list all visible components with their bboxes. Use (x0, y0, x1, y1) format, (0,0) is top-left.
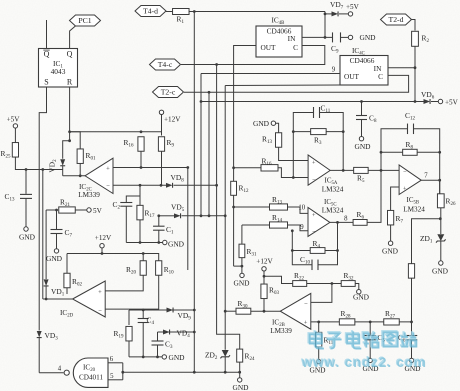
node C7 tap (55, 209, 58, 212)
terminal GND below C7 (46, 249, 63, 263)
wire to NAND pin4 (39, 372, 63, 374)
svg-text:+: + (304, 320, 308, 327)
node R03/out (263, 310, 266, 313)
svg-text:GND: GND (168, 353, 185, 362)
wire R5 right (368, 169, 399, 171)
resistor R01 (77, 149, 96, 164)
node IC5A out (342, 169, 345, 172)
svg-text:9: 9 (300, 224, 304, 231)
svg-text:C: C (378, 72, 383, 81)
node VD6 line/R2 (414, 100, 417, 103)
wire R31 bottom (241, 258, 243, 266)
node VD4 riser/outnet (193, 371, 196, 374)
connector flag T4-d (135, 6, 166, 17)
node rail jog (241, 265, 244, 268)
terminal GND below R32 (353, 290, 370, 302)
wire VD9 line (129, 309, 194, 311)
svg-text:+: + (98, 289, 102, 296)
terminal GND below R7 (382, 241, 399, 256)
wire C6 to GND (411, 340, 413, 358)
node C13 tap (25, 168, 28, 171)
wire R17 top riser (139, 196, 141, 206)
wire bus rail x194 (193, 12, 195, 373)
resistor R9 (158, 137, 174, 152)
node ZD1 top (439, 217, 442, 220)
wire GND line C2R17C1 (126, 242, 162, 244)
svg-text:6: 6 (110, 356, 114, 363)
node VD5/railC (208, 214, 211, 217)
wire +12V rail (70, 131, 162, 133)
svg-text:GND: GND (232, 383, 249, 391)
svg-text:LM324: LM324 (322, 206, 344, 214)
wire C13 riser (25, 170, 27, 194)
svg-text:GND: GND (19, 233, 36, 242)
wire C1 top riser (158, 216, 160, 226)
zener ZD1 (420, 234, 446, 245)
terminal GND below R11 (309, 359, 326, 374)
node C3/gndrail (156, 356, 159, 359)
node R8 right (438, 151, 441, 154)
pin 6 label (110, 356, 114, 363)
resistor R28 (339, 309, 355, 325)
terminal +5V right (438, 98, 458, 106)
wire C10 right rail (318, 222, 338, 264)
terminal +12V top-left (159, 110, 181, 123)
wire R6 right (367, 170, 381, 222)
svg-text:GND: GND (354, 142, 371, 151)
op-amp IC2C LM339 (78, 158, 113, 199)
resistor R7 (388, 210, 404, 225)
svg-text:LM339: LM339 (78, 191, 100, 199)
svg-text:T2-d: T2-d (389, 15, 404, 24)
node R16v top (140, 130, 143, 133)
node minus/R9 riser (160, 184, 163, 187)
wire R14 to pin9 (288, 225, 309, 231)
svg-text:PC1: PC1 (78, 16, 91, 25)
node minus feedback (292, 176, 295, 179)
node plus/R16v (140, 166, 143, 169)
resistor R5 (354, 167, 369, 184)
wire R26 bottom (440, 208, 442, 234)
node pullup/outrail (41, 168, 44, 171)
wire C5 to GND (369, 340, 371, 358)
wire IC2C plus input (113, 167, 188, 169)
wire C4 bottom (142, 323, 144, 357)
wire C11 left rail (293, 113, 313, 178)
resistor R32 (341, 271, 355, 286)
svg-text:GND: GND (253, 119, 270, 128)
node R17/gnd line (139, 241, 142, 244)
diode VD3 (37, 331, 58, 373)
terminal GND by C9 (348, 33, 376, 42)
svg-text:OUT: OUT (344, 72, 360, 81)
wire NAND pin6 (108, 362, 123, 364)
pin 4 label (58, 366, 62, 373)
wire T4-d to R1 (166, 11, 173, 13)
node R3 left (292, 130, 295, 133)
capacitor C12 (405, 111, 415, 134)
svg-text:9: 9 (332, 67, 336, 74)
svg-text:GND: GND (168, 239, 185, 248)
node VD7 anode (324, 13, 327, 16)
wire IC2C minus to VD8 (113, 184, 166, 186)
wire R25 to pullup rail (15, 157, 62, 170)
wire R4 right (325, 250, 338, 252)
wire C4 riser (142, 310, 144, 319)
capacitor C7 (51, 228, 73, 239)
wire IC4B OUT to left rail (234, 46, 256, 267)
terminal GND below C6 (404, 358, 421, 373)
wire IC1 Q-bar pin up (46, 20, 48, 49)
diode VD9 (167, 308, 192, 322)
node VD1/output (45, 298, 48, 301)
wire +12V to R03 (263, 271, 265, 284)
wire R13h left (234, 206, 270, 208)
svg-text:+: + (312, 159, 316, 166)
wire +12V riser (101, 248, 103, 254)
wire GND rail bottom (129, 356, 162, 358)
diode VD8 (166, 173, 217, 188)
wire R31 top riser (241, 225, 243, 244)
terminal GND below C13 (19, 227, 36, 242)
capacitor C8 (356, 114, 377, 125)
wire C12 left rail (381, 129, 408, 171)
wire +12V dist rail (67, 254, 159, 262)
wire R8 left (381, 151, 403, 153)
node VD4/bus (193, 331, 196, 334)
node R1 out (193, 10, 196, 13)
wire R24 bottom (239, 362, 241, 378)
resistor R31 (239, 244, 257, 258)
svg-text:GND: GND (432, 267, 449, 276)
node VD5/railB (200, 214, 203, 217)
wire bus rail x225 (224, 86, 226, 350)
wire C2 bottom (125, 206, 127, 242)
svg-text:GND: GND (46, 254, 63, 263)
wire IC1 R pin down (69, 87, 71, 141)
wire VD4 line (158, 331, 195, 333)
node R-pin/VD2 (68, 139, 71, 142)
resistor R16 vertical (124, 137, 145, 152)
wire T4-c line (181, 46, 325, 65)
node VD5/railE (224, 214, 227, 217)
wire R16h to minus (278, 168, 308, 178)
node IC5C out (336, 221, 339, 224)
wire R16h left (234, 167, 261, 169)
svg-text:7: 7 (424, 173, 428, 180)
wire C8 to GND (361, 120, 363, 137)
wire ZD1 node to R33 rail (412, 219, 441, 264)
wire minus jog (311, 284, 332, 303)
wire R7 to GND (390, 225, 392, 241)
capacitor C2 (113, 200, 133, 211)
wire IC2D output (43, 298, 73, 300)
svg-text:C: C (293, 43, 298, 52)
node plus/bus (186, 166, 189, 169)
node R4 right (336, 249, 339, 252)
node VD9/bus (193, 309, 196, 312)
wire PC1 to IC1 Q pin (70, 26, 76, 49)
pin 5 label (110, 373, 114, 380)
node R22 branch (263, 275, 266, 278)
wire C7 riser (56, 210, 58, 230)
pin 9 label (332, 67, 336, 74)
wire VD6 line (201, 101, 424, 103)
resistor R33 (408, 264, 414, 279)
connector flag T2-c (153, 87, 184, 98)
node R24/outnet (238, 371, 241, 374)
node R2/IN (414, 66, 417, 69)
svg-text:−: − (403, 169, 407, 176)
wire minus feedback rail C (292, 231, 312, 265)
resistor R22 (293, 271, 307, 286)
capacitor C9 (331, 32, 341, 54)
wire R20 top riser (142, 254, 144, 262)
diode VD4 (163, 329, 190, 340)
svg-text:+12V: +12V (164, 116, 181, 124)
capacitor C11 (314, 104, 331, 119)
svg-text:−: − (106, 183, 110, 190)
wire R21 to 5V (75, 209, 87, 211)
wire R4 left (292, 250, 310, 252)
wire R32 to GND (355, 284, 359, 290)
wire bus rail x188 (187, 168, 189, 271)
wire C13 to GND (25, 198, 27, 227)
op-amp IC1 4043 latch box (39, 49, 78, 88)
pin 7 label (424, 173, 428, 180)
wire NAND pins join (122, 363, 124, 380)
wire bus rail x216 (217, 65, 240, 350)
wire VD2 top link (63, 141, 70, 159)
wire IC2B plus line (311, 321, 412, 323)
connector flag T2-d (381, 14, 412, 25)
svg-text:GND: GND (353, 292, 370, 301)
node IC5B out (438, 179, 441, 182)
resistor R2 (412, 31, 430, 46)
wire R22 branch (264, 276, 293, 283)
wire C5 riser (369, 322, 371, 336)
wire IC5B plus to R7 (391, 187, 400, 210)
diode VD5 (159, 203, 225, 219)
wire C12 right rail (414, 129, 440, 194)
wire C7 to GND (56, 234, 58, 249)
wire R9 bottom (161, 151, 163, 185)
node R8 left (380, 151, 383, 154)
svg-text:IN: IN (288, 34, 296, 43)
svg-text:GND: GND (233, 279, 250, 288)
wire R19 bottom (128, 341, 130, 357)
svg-text:+12V: +12V (256, 258, 273, 266)
resistor R12 (231, 181, 249, 195)
terminal GND left of R03 (233, 273, 250, 287)
watermark (300, 330, 427, 370)
node IN/VD7 riser (324, 36, 327, 39)
op-amp IC5B LM324 (399, 165, 425, 214)
terminal GND right of C1 (163, 239, 185, 248)
wire IC4C OUT pin9 (201, 73, 340, 75)
resistor R27 (384, 309, 400, 325)
pin 10 label (298, 205, 305, 212)
diode VD1 (44, 279, 65, 299)
wire VD1 rail up (45, 210, 47, 279)
wire outrail left long (42, 170, 44, 300)
svg-text:R: R (67, 78, 73, 87)
capacitor C5 (364, 333, 385, 344)
node plus/R11 (317, 321, 320, 324)
wire R8 right (417, 151, 440, 153)
svg-text:+12V: +12V (95, 234, 112, 242)
wire IC2B out to R30 (251, 310, 280, 312)
svg-text:+: + (403, 185, 407, 192)
svg-text:Q: Q (67, 50, 73, 59)
wire R01 bottom (79, 163, 81, 175)
resistor R13 horizontal (270, 195, 288, 210)
svg-text:CD4011: CD4011 (79, 374, 103, 382)
svg-text:Q: Q (44, 50, 50, 59)
wire R17 bottom (139, 220, 141, 243)
wire C3 top (157, 332, 159, 341)
resistor R03 (261, 284, 280, 299)
svg-text:LM324: LM324 (322, 186, 344, 194)
wire rail jog to GND (234, 266, 242, 273)
wire +5V to R25 (14, 128, 16, 143)
node NAND out (121, 371, 124, 374)
svg-text:+5V: +5V (445, 98, 459, 106)
svg-text:4043: 4043 (51, 67, 66, 76)
wire R2 down (414, 46, 416, 101)
terminal 5V (87, 207, 103, 215)
wire bus rail x201 (200, 74, 202, 216)
connector flag T4-c (150, 59, 181, 70)
terminal GND rail (162, 353, 185, 362)
node ZD2/outnet (224, 371, 227, 374)
svg-text:LM339: LM339 (270, 327, 292, 335)
op-amp IC5C LM324 (308, 198, 344, 236)
resistor R02 (64, 273, 83, 288)
resistor R13 vertical (262, 133, 282, 148)
wire R21 line left (46, 209, 58, 211)
node C4/gndrail (142, 356, 145, 359)
svg-text:T2-c: T2-c (161, 88, 176, 97)
wire IC4B IN (302, 36, 333, 38)
wire ZD1 to GND (440, 241, 442, 261)
node R4 left (291, 249, 294, 252)
resistor R8 (403, 140, 418, 155)
resistor R1 (173, 9, 190, 26)
wire bus rail x209 (208, 92, 210, 216)
svg-text:CD4066: CD4066 (350, 56, 375, 65)
svg-text:+5V: +5V (346, 3, 360, 11)
svg-text:−: − (304, 301, 308, 308)
wire C1 bottom riser (158, 230, 160, 242)
node +12V junction (101, 252, 104, 255)
capacitor C10 (300, 255, 318, 270)
node C1/VD5 line (157, 214, 160, 217)
capacitor C1 (153, 225, 174, 236)
terminal GND below C8 (354, 137, 371, 152)
wire R19 riser (128, 310, 130, 325)
wire T2-c line (184, 75, 409, 92)
terminal +5V top (346, 3, 360, 16)
wire R11 riser (318, 322, 320, 332)
terminal +12V IC2B (256, 258, 273, 271)
resistor R19 (114, 326, 133, 341)
capacitor C3 (152, 340, 173, 351)
svg-text:5V: 5V (93, 207, 103, 215)
svg-text:−: − (312, 229, 316, 236)
wire NAND pin5 (108, 379, 123, 381)
svg-text:+5V: +5V (7, 116, 21, 124)
resistor R14 (270, 213, 288, 228)
node R22/R32 (331, 282, 334, 285)
wire IC1 S pin down-left rail (39, 87, 46, 331)
wire R11 to GND (318, 347, 320, 360)
wire R22 to R32 (307, 283, 342, 285)
svg-text:www. cndz2. com: www. cndz2. com (301, 355, 427, 370)
node C1/gnd line (157, 241, 160, 244)
node R27 right (410, 321, 413, 324)
terminal GND by R13v (253, 119, 276, 128)
node minus IC5C (291, 229, 294, 232)
resistor R17 (137, 205, 155, 220)
node R28/C5 (369, 321, 372, 324)
resistor R26 (437, 194, 455, 208)
diode VD2 (48, 159, 66, 176)
resistor R6 (353, 210, 367, 225)
svg-text:10: 10 (298, 205, 305, 212)
node C8 tap (360, 100, 363, 103)
wire C11 right rail (320, 113, 344, 171)
wire R1 to VD7 riser (189, 11, 325, 13)
resistor R10 (156, 261, 175, 276)
pin 9 label IC5C (300, 224, 304, 231)
svg-text:T4-d: T4-d (143, 7, 158, 16)
wire IC5C out (330, 221, 353, 223)
wire +12V down (161, 115, 163, 136)
wire R13v to plus (279, 147, 309, 160)
wire C9 to GND (341, 36, 349, 38)
wire R01 top link (70, 132, 81, 150)
terminal GND below C5 (362, 358, 379, 373)
capacitor C4 (138, 316, 155, 327)
wire T2-d to R2 (411, 20, 416, 31)
op-amp IC2D LM339 (60, 281, 105, 319)
wire C3 bottom (157, 345, 159, 357)
zener ZD2 (205, 350, 230, 361)
node VD8 bus (215, 184, 218, 187)
wire IC5B out (421, 179, 440, 181)
resistor R4 (310, 239, 325, 253)
svg-text:T4-c: T4-c (158, 60, 173, 69)
svg-text:−: − (312, 177, 316, 184)
wire VD7 riser (324, 12, 326, 38)
resistor R20 vertical (126, 261, 146, 276)
wire R02 top (66, 254, 68, 274)
node R-pin/R01 (68, 130, 71, 133)
svg-text:S: S (44, 78, 48, 87)
svg-text:GND: GND (359, 33, 376, 42)
pin 8 label (344, 215, 348, 222)
connector flag PC1 (70, 15, 101, 26)
node R17/minus line (139, 184, 142, 187)
capacitor C13 (5, 192, 33, 203)
node R20 top (142, 252, 145, 255)
capacitor C6 (398, 333, 417, 344)
svg-text:8: 8 (344, 215, 348, 222)
node T4-c bus (215, 63, 218, 66)
terminal GND below R24 (232, 378, 249, 391)
wire VD2 bottom to IC2C apex (63, 175, 85, 177)
